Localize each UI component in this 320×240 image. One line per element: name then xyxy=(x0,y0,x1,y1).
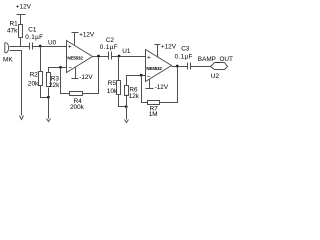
svg-text:+: + xyxy=(68,43,72,50)
capacitor C2 0.1uF xyxy=(100,37,118,60)
U1 -12V supply xyxy=(146,79,169,92)
wire C2 to U1 plus input xyxy=(112,56,146,58)
svg-text:-12V: -12V xyxy=(79,74,93,81)
resistor R6 12k xyxy=(125,86,140,100)
wire R5 bottom to ground row xyxy=(119,95,127,107)
svg-text:10k: 10k xyxy=(107,88,118,95)
svg-text:R5: R5 xyxy=(108,80,117,87)
U0 -12V supply xyxy=(72,67,94,82)
node junction U0 output xyxy=(97,55,100,58)
wire R6 top to U1 minus input xyxy=(127,76,146,86)
power +12V rail top-left xyxy=(16,3,32,24)
resistor R4 200k xyxy=(70,92,85,111)
wire R7 right leg to output xyxy=(160,67,178,103)
resistor R7 1M xyxy=(148,101,160,119)
op-amp U0 xyxy=(48,39,93,72)
ground R5 R6 xyxy=(125,120,129,123)
wire feedback left leg to R4 xyxy=(61,68,70,94)
wire R3 to U0 minus input xyxy=(49,68,67,73)
wire R4 right to output node xyxy=(83,57,99,94)
svg-text:1M: 1M xyxy=(149,111,158,118)
wire R3 bottom to ground node xyxy=(48,88,50,98)
svg-text:+12V: +12V xyxy=(161,43,177,50)
resistor R3 22k xyxy=(47,73,61,90)
U0 +12V supply xyxy=(72,31,95,45)
svg-text:C2: C2 xyxy=(106,37,115,44)
svg-text:BAMP_OUT: BAMP_OUT xyxy=(198,56,233,63)
svg-text:22k: 22k xyxy=(49,82,60,89)
wire down to R5 xyxy=(118,57,120,81)
capacitor C3 0.1uF xyxy=(175,45,193,69)
svg-text:NE5532: NE5532 xyxy=(146,66,162,71)
svg-text:12k: 12k xyxy=(129,93,140,100)
wire ground stub below R6 xyxy=(126,107,128,120)
wire C1 to U0 plus input xyxy=(33,46,67,48)
svg-text:0.1µF: 0.1µF xyxy=(25,34,43,41)
svg-text:C3: C3 xyxy=(181,45,190,52)
node junction feedback tap at minus input xyxy=(59,66,62,69)
svg-text:NE5532: NE5532 xyxy=(67,55,83,60)
wire mic top lead to C1 xyxy=(10,46,30,48)
svg-text:+12V: +12V xyxy=(16,3,32,10)
wire R7 loop left leg xyxy=(142,76,148,103)
ground R2 R3 xyxy=(47,119,51,122)
svg-text:MK: MK xyxy=(3,56,13,63)
svg-text:U0: U0 xyxy=(48,39,57,46)
node junction R7 tap at minus input xyxy=(140,74,143,77)
svg-text:+12V: +12V xyxy=(79,31,95,38)
wire R6 bottom xyxy=(126,95,128,107)
resistor R1 47k xyxy=(7,21,23,38)
svg-text:C1: C1 xyxy=(28,26,37,33)
node junction ground R2 R3 xyxy=(47,96,50,99)
op-amp U1 xyxy=(122,48,171,81)
node junction bottom ground tap xyxy=(125,105,128,108)
svg-text:−: − xyxy=(147,73,151,80)
resistor R5 10k xyxy=(107,80,121,95)
wire R2 bottom to ground node xyxy=(41,86,49,98)
wire U1 output row xyxy=(172,66,188,68)
svg-text:-12V: -12V xyxy=(155,84,169,91)
wire mic bottom lead down to ground xyxy=(10,51,22,116)
capacitor C1 0.1uF xyxy=(25,26,43,49)
svg-text:47k: 47k xyxy=(7,28,18,35)
svg-text:R2: R2 xyxy=(30,72,39,79)
wire ground stub xyxy=(48,98,50,119)
svg-text:0.1µF: 0.1µF xyxy=(100,44,118,51)
svg-text:−: − xyxy=(68,65,72,72)
wire R1 bottom to input row xyxy=(20,38,22,47)
U1 +12V supply xyxy=(155,43,177,57)
node junction bias tap xyxy=(39,45,42,48)
node junction R5 tap xyxy=(118,55,121,58)
svg-text:20k: 20k xyxy=(28,81,39,88)
resistor R2 20k xyxy=(28,72,43,88)
svg-text:0.1µF: 0.1µF xyxy=(175,53,193,60)
svg-text:200k: 200k xyxy=(70,104,85,111)
wire C3 to connector xyxy=(191,66,211,68)
node junction U1 output xyxy=(176,65,179,68)
wire U0 output row xyxy=(93,56,109,58)
ground mic xyxy=(20,116,24,120)
svg-text:U1: U1 xyxy=(122,48,131,55)
wire down to R2 xyxy=(40,47,42,72)
microphone MK xyxy=(3,43,13,64)
svg-text:+: + xyxy=(147,55,151,62)
svg-text:U2: U2 xyxy=(211,73,220,80)
off-page connector U2 BAMP_OUT xyxy=(198,56,233,80)
